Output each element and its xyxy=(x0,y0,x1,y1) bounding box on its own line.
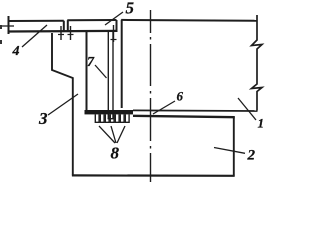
svg-text:7: 7 xyxy=(87,55,95,70)
svg-text:3: 3 xyxy=(38,109,48,128)
svg-text:5: 5 xyxy=(126,0,135,18)
svg-text:4: 4 xyxy=(12,44,20,59)
svg-text:6: 6 xyxy=(177,89,184,104)
svg-text:2: 2 xyxy=(247,148,256,164)
svg-text:1: 1 xyxy=(258,116,265,131)
svg-text:8: 8 xyxy=(111,144,120,163)
